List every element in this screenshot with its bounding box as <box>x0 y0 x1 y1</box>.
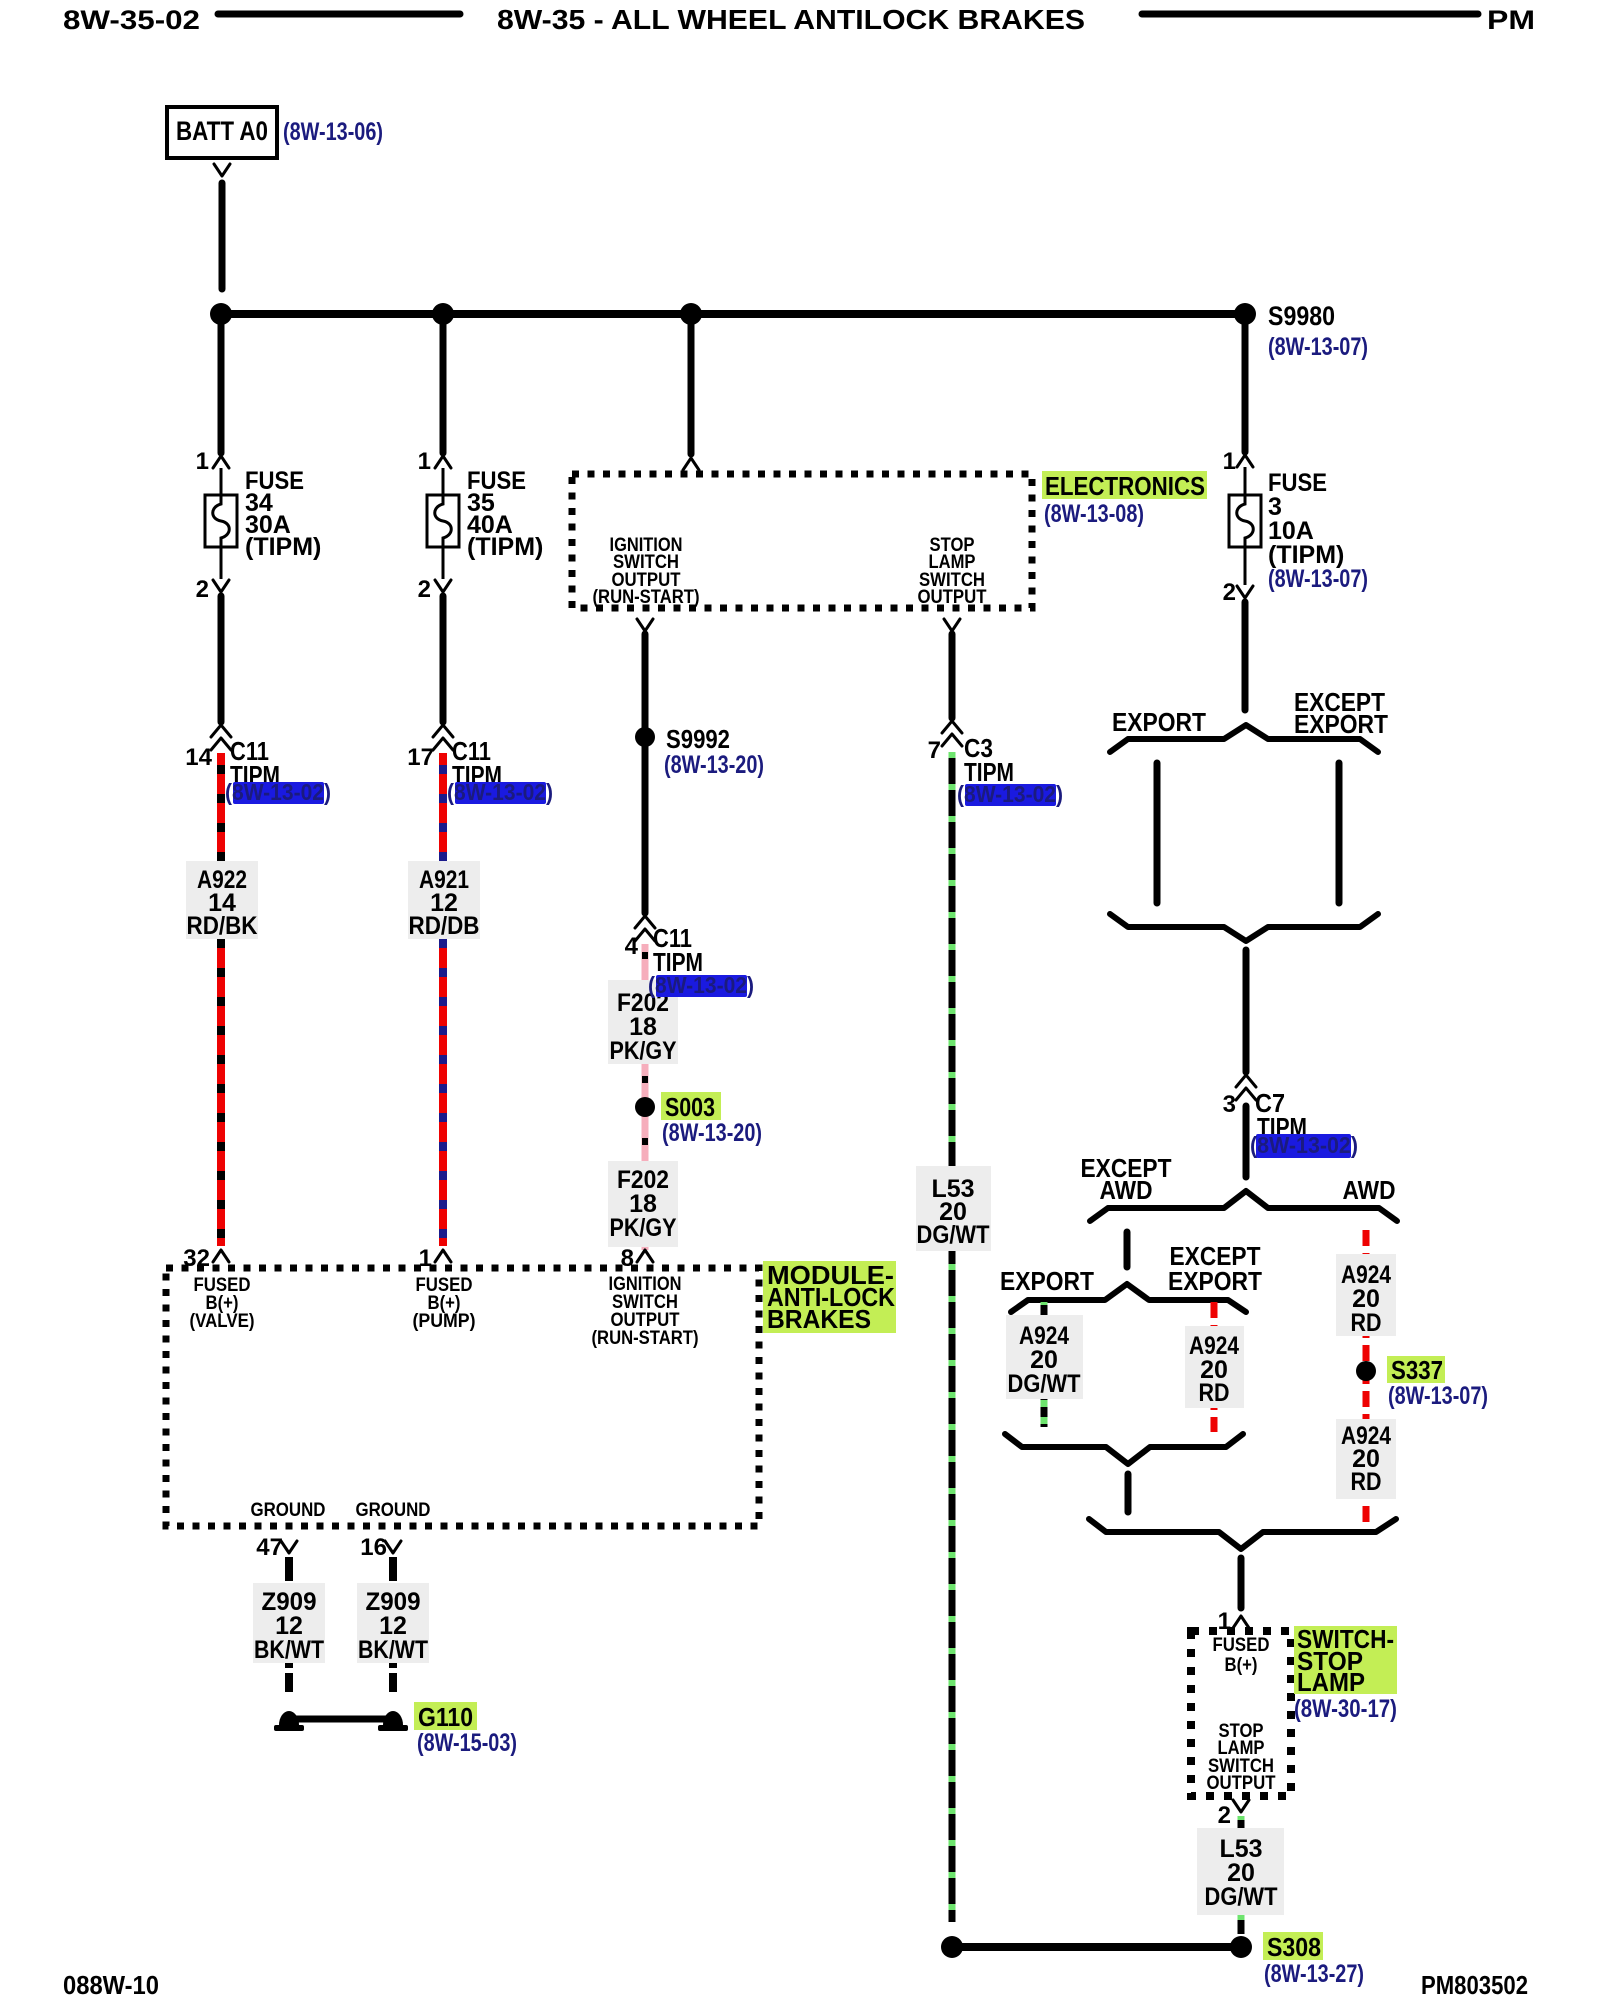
wire from BATT A0 to bus <box>219 183 226 289</box>
svg-text:DG/WT: DG/WT <box>917 1221 990 1249</box>
connector chevron fuse 3 pin 2 <box>1237 586 1253 598</box>
wire label F202 18 PK/GY lower <box>608 1161 678 1247</box>
svg-text:16: 16 <box>360 1534 387 1561</box>
svg-text:(8W-13-02): (8W-13-02) <box>648 972 754 998</box>
svg-text:(8W-13-07): (8W-13-07) <box>1388 1382 1488 1410</box>
wire label F202 18 PK/GY upper <box>608 980 678 1065</box>
svg-text:GROUND: GROUND <box>356 1500 431 1521</box>
wire bottom horizontal to S308 <box>952 1943 1241 1951</box>
svg-text:S337: S337 <box>1391 1355 1443 1385</box>
wire C7 to awd split <box>1243 1106 1250 1177</box>
svg-text:(8W-13-07): (8W-13-07) <box>1268 565 1368 593</box>
junction node bottom left <box>941 1936 963 1958</box>
wire bus S9980 horizontal <box>221 310 1245 318</box>
svg-text:EXPORT: EXPORT <box>1294 709 1388 739</box>
svg-text:17: 17 <box>407 744 434 771</box>
splice S337 <box>1356 1355 1445 1385</box>
link highlight (8W-13-02) for C11 col2 <box>447 779 553 805</box>
fuse 35 value label <box>467 467 543 561</box>
svg-text:PK/GY: PK/GY <box>610 1214 677 1242</box>
svg-text:(8W-13-02): (8W-13-02) <box>1250 1132 1358 1158</box>
svg-text:(PUMP): (PUMP) <box>413 1311 476 1332</box>
wire L53 20 DG/WT from stop lamp <box>1238 1816 1245 1934</box>
connector chevron fuse 34 pin 2 <box>213 580 229 592</box>
wire into fuse 3 <box>1244 467 1247 495</box>
svg-text:DG/WT: DG/WT <box>1008 1370 1081 1398</box>
svg-text:3: 3 <box>1223 1091 1236 1118</box>
connector chevron stop lamp pin 1 <box>1233 1616 1249 1628</box>
svg-text:(8W-13-08): (8W-13-08) <box>1044 500 1144 528</box>
svg-text:AWD: AWD <box>1343 1175 1396 1205</box>
connector chevron electronics ignition output <box>637 619 653 631</box>
wire bus to electronics box <box>688 318 695 454</box>
wire except-export branch stub <box>1336 763 1343 903</box>
svg-text:FUSED: FUSED <box>1213 1635 1270 1656</box>
svg-text:S003: S003 <box>665 1092 715 1122</box>
header rule right <box>1142 11 1478 18</box>
connector C3 pin 7 chevrons <box>942 721 962 746</box>
fuse 3 value label <box>1268 469 1344 569</box>
wire export branch stub <box>1154 763 1161 903</box>
wire out of fuse 34 <box>220 547 223 579</box>
wire A921 12 RD/DB <box>439 753 447 1246</box>
wire fuse 3 to export split <box>1242 602 1249 710</box>
svg-text:(8W-30-17): (8W-30-17) <box>1294 1695 1397 1723</box>
link highlight (8W-13-02) for C3 <box>957 781 1063 807</box>
label ELECTRONICS <box>1042 471 1207 501</box>
module-electronics dashed box <box>572 474 1032 608</box>
svg-text:RD: RD <box>1199 1379 1230 1407</box>
branch split brace export/except-export <box>1110 725 1378 752</box>
fuse F3 <box>1229 495 1261 547</box>
svg-text:2: 2 <box>1223 579 1236 606</box>
branch merge brace export/except-export <box>1110 914 1378 941</box>
label EXCEPT EXPORT sub-split <box>1168 1241 1262 1296</box>
svg-text:1: 1 <box>418 448 431 475</box>
svg-text:RD/DB: RD/DB <box>409 912 480 940</box>
svg-text:(8W-13-02): (8W-13-02) <box>447 779 553 805</box>
label SWITCH-STOP LAMP <box>1294 1624 1397 1697</box>
svg-text:1: 1 <box>196 448 209 475</box>
wire label A924 20 RD sub <box>1185 1326 1244 1408</box>
electronics pin function IGNITION SWITCH OUTPUT (RUN-START) <box>593 535 700 608</box>
svg-text:DG/WT: DG/WT <box>1205 1883 1278 1911</box>
header rule left <box>218 11 460 18</box>
wire out of fuse 3 <box>1244 547 1247 585</box>
svg-text:(8W-13-27): (8W-13-27) <box>1264 1960 1364 1988</box>
svg-text:B(+): B(+) <box>1225 1655 1258 1676</box>
connector chevron module pin 47 <box>281 1541 297 1553</box>
svg-text:G110: G110 <box>418 1702 473 1732</box>
svg-text:(8W-13-20): (8W-13-20) <box>662 1119 762 1147</box>
module pin function IGNITION SWITCH OUTPUT (RUN-START) <box>592 1274 699 1349</box>
connector chevron fuse 35 pin 1 <box>435 456 451 468</box>
svg-text:EXPORT: EXPORT <box>1112 707 1206 737</box>
stop lamp pin function FUSED B(+) <box>1213 1635 1270 1676</box>
connector C11 pin 17 chevrons <box>433 725 453 750</box>
svg-text:BRAKES: BRAKES <box>767 1304 871 1334</box>
svg-text:PM: PM <box>1487 5 1535 35</box>
module pin function FUSED B(+) (VALVE) <box>190 1275 255 1332</box>
wire label Z909 12 BK/WT right <box>357 1583 429 1664</box>
connector chevron into electronics box <box>683 458 699 470</box>
wire merge stub export sub <box>1125 1474 1132 1512</box>
connector chevron electronics stop lamp output <box>944 619 960 631</box>
svg-text:47: 47 <box>256 1534 283 1561</box>
svg-text:(VALVE): (VALVE) <box>190 1311 255 1332</box>
svg-text:8W-35 - ALL WHEEL ANTILOCK BRA: 8W-35 - ALL WHEEL ANTILOCK BRAKES <box>497 4 1085 35</box>
branch split brace awd/except-awd <box>1090 1191 1397 1221</box>
fuse F34 <box>205 495 237 547</box>
svg-text:14: 14 <box>185 744 212 771</box>
svg-text:(8W-13-02): (8W-13-02) <box>957 781 1063 807</box>
svg-text:2: 2 <box>196 576 209 603</box>
wire bus to fuse 35 pin 1 <box>440 318 447 453</box>
stop lamp pin function STOP LAMP SWITCH OUTPUT <box>1207 1721 1276 1794</box>
connector chevron fuse 34 pin 1 <box>213 456 229 468</box>
svg-text:(8W-13-07): (8W-13-07) <box>1268 333 1368 361</box>
ground G110 left symbol <box>274 1711 304 1731</box>
svg-text:2: 2 <box>418 576 431 603</box>
svg-text:8W-35-02: 8W-35-02 <box>63 5 200 35</box>
svg-text:1: 1 <box>1223 448 1236 475</box>
wire bus to fuse 34 pin 1 <box>218 318 225 453</box>
ground label G110 <box>414 1702 477 1732</box>
splice S003 <box>635 1092 721 1122</box>
svg-text:7: 7 <box>928 737 941 764</box>
switch-stop lamp dashed box <box>1191 1631 1291 1796</box>
wire between ground symbols <box>289 1716 393 1723</box>
junction node at bus x691 <box>680 303 702 325</box>
wire label L53 20 DG/WT bottom <box>1197 1828 1284 1915</box>
connector chevron module pin 1 <box>435 1250 451 1262</box>
wire label A924 20 RD awd lower <box>1336 1419 1396 1499</box>
svg-text:EXPORT: EXPORT <box>1168 1266 1262 1296</box>
connector chevron module pin 8 <box>637 1250 653 1262</box>
svg-text:(TIPM): (TIPM) <box>467 533 543 561</box>
svg-text:(RUN-START): (RUN-START) <box>592 1328 699 1349</box>
svg-text:LAMP: LAMP <box>1297 1667 1365 1697</box>
svg-text:ELECTRONICS: ELECTRONICS <box>1045 471 1205 501</box>
wire Z909 12 BK/WT right <box>389 1557 397 1692</box>
wire fuse 34 to connector C11 <box>218 596 225 722</box>
svg-text:BATT A0: BATT A0 <box>176 116 268 146</box>
wire L53 20 DG/WT long <box>949 752 956 1922</box>
wire into fuse 34 <box>220 468 223 495</box>
branch split brace export/except-export sub <box>1011 1284 1246 1312</box>
connector chevron module pin 32 <box>213 1250 229 1262</box>
wire A924 20 RD except-export leg <box>1211 1302 1218 1432</box>
branch merge brace final <box>1089 1519 1396 1549</box>
wire into fuse 35 <box>442 468 445 495</box>
connector C11 pin 14 chevrons <box>211 725 231 750</box>
svg-text:(RUN-START): (RUN-START) <box>593 587 700 608</box>
wire except-awd stub <box>1124 1232 1131 1267</box>
fuse F35 <box>427 495 459 547</box>
module pin function FUSED B(+) (PUMP) <box>413 1275 476 1332</box>
fuse 34 value label <box>245 467 321 561</box>
svg-text:PM803502: PM803502 <box>1421 1970 1528 2000</box>
wire label A922 14 RD/BK <box>186 861 258 940</box>
junction node at bus x221 <box>210 303 232 325</box>
svg-text:BK/WT: BK/WT <box>358 1636 428 1664</box>
wire Z909 12 BK/WT left <box>285 1557 293 1692</box>
wire label L53 20 DG/WT <box>916 1166 991 1251</box>
wire electronics to C3 pin 7 <box>949 634 956 718</box>
svg-text:AWD: AWD <box>1100 1175 1153 1205</box>
connector chevron fuse 3 pin 1 <box>1237 455 1253 467</box>
svg-text:S9980: S9980 <box>1268 301 1335 331</box>
svg-text:(8W-13-20): (8W-13-20) <box>664 751 764 779</box>
branch merge brace export sub <box>1005 1434 1243 1464</box>
link highlight (8W-13-02) for C11 <box>225 779 331 805</box>
svg-text:OUTPUT: OUTPUT <box>918 587 987 608</box>
splice S9980 <box>1234 301 1335 331</box>
electronics pin function STOP LAMP SWITCH OUTPUT <box>918 535 987 608</box>
wire merge to C7 pin 3 <box>1243 950 1250 1072</box>
ground G110 right symbol <box>378 1711 408 1731</box>
link highlight (8W-13-02) for C11 mid <box>648 972 754 998</box>
wire A924 20 DG/WT export leg <box>1041 1302 1048 1427</box>
wire electronics to C11 pin 4 <box>642 634 649 913</box>
connector C11 pin 4 chevrons <box>635 916 655 941</box>
wire A922 14 RD/BK <box>217 753 225 1246</box>
svg-text:RD: RD <box>1351 1468 1382 1496</box>
wire merge to stop lamp switch <box>1238 1558 1245 1608</box>
label MODULE-ANTI-LOCK BRAKES <box>763 1260 896 1334</box>
svg-text:S308: S308 <box>1267 1932 1321 1962</box>
junction node at bus x443 <box>432 303 454 325</box>
svg-text:GROUND: GROUND <box>251 1500 326 1521</box>
splice S308 <box>1230 1932 1323 1962</box>
connector chevron stop lamp pin 2 <box>1233 1800 1249 1812</box>
wire label Z909 12 BK/WT left <box>253 1583 325 1664</box>
svg-text:2: 2 <box>1218 1802 1231 1829</box>
svg-text:S9992: S9992 <box>666 724 730 754</box>
battery feed BATT A0 <box>167 107 277 158</box>
svg-text:OUTPUT: OUTPUT <box>1207 1773 1276 1794</box>
connector chevron below BATT A0 <box>214 164 230 176</box>
wire A924 20 RD awd leg <box>1363 1230 1370 1522</box>
wire out of fuse 35 <box>442 547 445 579</box>
svg-text:(8W-15-03): (8W-15-03) <box>417 1729 517 1757</box>
label EXCEPT EXPORT right of split <box>1294 687 1388 739</box>
splice S9992 <box>635 724 730 754</box>
svg-text:BK/WT: BK/WT <box>254 1636 324 1664</box>
svg-text:(TIPM): (TIPM) <box>245 533 321 561</box>
wire label A921 12 RD/DB <box>408 861 480 940</box>
wire label A924 20 DG/WT <box>1006 1315 1083 1399</box>
wire fuse 35 to connector C11 <box>440 596 447 722</box>
label EXCEPT AWD <box>1081 1153 1172 1205</box>
svg-text:088W-10: 088W-10 <box>63 1970 159 2000</box>
svg-text:RD/BK: RD/BK <box>187 912 258 940</box>
wire F202 18 PK/GY upper <box>642 944 649 1250</box>
svg-text:(8W-13-06): (8W-13-06) <box>283 118 383 146</box>
svg-text:RD: RD <box>1351 1309 1382 1337</box>
wire bus to fuse 3 pin 1 <box>1242 318 1249 452</box>
svg-text:EXPORT: EXPORT <box>1000 1266 1094 1296</box>
link highlight (8W-13-02) for C7 <box>1250 1132 1358 1158</box>
connector C7 pin 3 chevrons <box>1236 1075 1256 1100</box>
svg-text:(8W-13-02): (8W-13-02) <box>225 779 331 805</box>
module-anti-lock brakes dashed box <box>166 1268 759 1526</box>
connector chevron module pin 16 <box>385 1541 401 1553</box>
svg-text:4: 4 <box>625 933 639 960</box>
svg-text:PK/GY: PK/GY <box>610 1037 677 1065</box>
wire label A924 20 RD awd upper <box>1336 1254 1396 1337</box>
connector chevron fuse 35 pin 2 <box>435 580 451 592</box>
